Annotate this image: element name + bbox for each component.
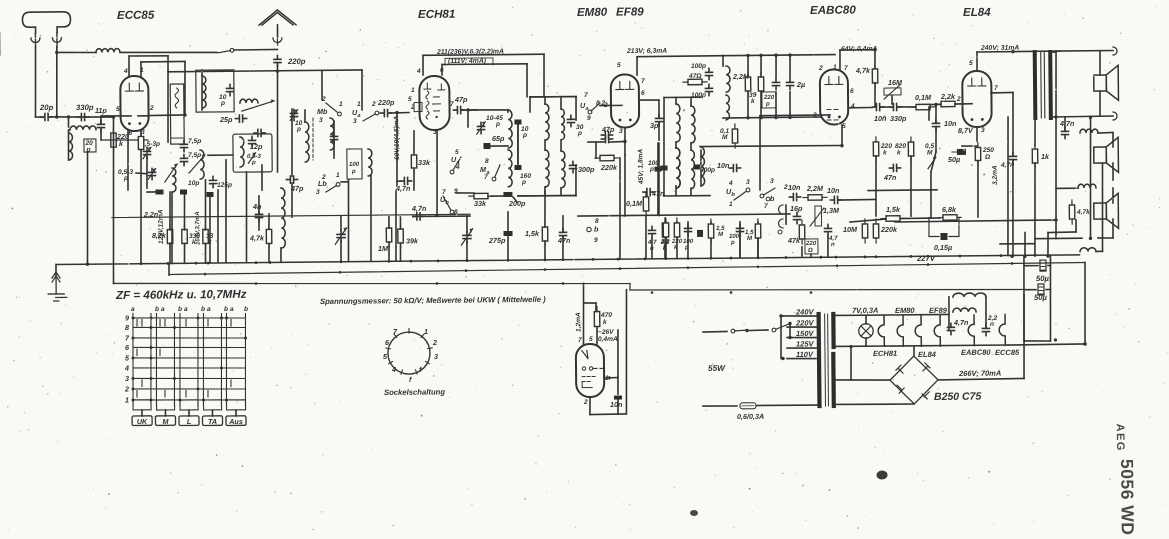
wire 11p down [100,129,102,140]
capacitor 220p FM coupling [274,55,281,66]
svg-text:Ω: Ω [807,247,813,254]
matrix junction [131,356,134,359]
wire Bplus col A [1023,256,1025,341]
contact tick [136,391,138,398]
switch Mb [326,103,341,116]
wire IFT2 sec bot [690,188,692,196]
wire af col 740 [739,236,741,256]
wire lamp up [865,316,867,324]
wire pin4 up [128,56,130,76]
wire button stub Aus [235,410,237,416]
wire cathode x128 down [127,131,128,190]
trimmer cap 10-45p [477,122,484,133]
resistor cathode 220k b [138,131,144,154]
wire gang3 down [466,242,468,261]
junction bus3 [730,291,733,294]
matrix junction [173,326,176,329]
wire 111V rail [442,63,527,66]
svg-text:220: 220 [805,240,817,247]
bus agc [169,262,1085,274]
capacitor 300p if2 [660,165,667,170]
wire ecap1 right [1048,265,1050,267]
wire choke net2 [985,297,987,327]
wire L9 up [304,110,306,122]
capacitor 100p r2 [705,84,712,95]
wire 0,5-3 leader [136,172,146,175]
svg-text:ECH81: ECH81 [418,8,455,21]
svg-text:240V: 240V [795,307,815,316]
svg-text:5: 5 [408,96,412,103]
svg-text:EF89: EF89 [616,5,644,18]
junction bus [195,262,198,265]
coil L11 osc coil top [508,110,512,148]
node spk return top [1089,116,1092,119]
wire 1k down [1034,163,1036,256]
terminal hook top [1113,47,1117,55]
node tap 110 [781,357,784,360]
fuse 0,6/0,3A [740,403,756,409]
svg-text:2µ: 2µ [796,80,805,89]
junction bus [757,256,760,259]
svg-text:p: p [351,168,356,175]
wire af out [839,198,875,201]
coil L2 input [70,126,96,130]
svg-text:4,7n: 4,7n [1059,119,1075,128]
svg-text:p: p [521,179,526,186]
wire FM lead lower [276,63,278,172]
matrix junction [149,326,152,329]
wire 220k agc left [595,142,597,158]
wire em bottom [590,413,626,416]
wire 39k col down [760,92,762,118]
svg-text:7: 7 [484,174,488,181]
AM dipole antenna [22,12,70,33]
wire gang2 up [340,217,342,231]
svg-text:10p: 10p [188,180,199,187]
svg-text:ECH81: ECH81 [873,349,897,358]
wire spk3 out [1112,219,1114,238]
jack circle [778,230,782,234]
wire xover right [1098,132,1113,135]
svg-text:b: b [244,306,248,313]
junction bus2 [339,271,342,274]
svg-text:7: 7 [844,65,848,72]
svg-text:10n: 10n [610,400,623,409]
junction bus3 [562,282,565,285]
svg-text:47n: 47n [883,173,897,182]
wire col x1008 [1007,117,1010,256]
resistor 0,1M vol [911,104,935,110]
node FM ant rail [276,69,279,72]
wire 4,7n det down [651,238,653,259]
wire choke to switch [120,52,217,54]
coil IFT2 sec lower [691,150,695,189]
node rail wire 39k col [759,54,762,57]
coil crossover 3b [1080,248,1096,252]
wire 8,2k up [169,192,172,230]
junction bus [730,257,733,260]
wire 22k right [955,103,972,105]
resistor 6,8k [939,215,961,221]
wire L10b drop [370,176,372,261]
ground arrow [52,276,60,282]
capacitor 300p ift [569,161,576,172]
wire matrix row 8 [133,326,246,328]
shielded coil box [170,84,184,144]
wire matrix row 5 [133,357,246,359]
wire det mid rail [723,117,820,118]
svg-text:10n: 10n [827,186,840,195]
svg-text:275p: 275p [488,236,506,245]
svg-text:4,7k: 4,7k [1076,209,1090,216]
junction bus [959,255,962,258]
svg-text:Mb: Mb [317,107,328,116]
pot 1,3M [810,206,824,226]
wire IFT1 coil tops [544,97,546,104]
capacitor 2u b [786,78,793,89]
capacitor 10n vol [872,103,883,110]
junction bus [340,260,343,263]
wire matrix column 8 [221,314,223,406]
node mid wire 2,2M col [746,116,749,119]
node pin5 rail [840,144,843,147]
button UK [132,416,152,426]
contact tick [230,380,232,387]
transformer T out secondary [1048,52,1053,118]
wire EF89 cath rail [624,155,625,216]
wire 20p to leg [50,116,57,118]
socket pin tick [389,361,393,363]
wire tap 150V [787,336,816,339]
wire matrix column 3 [156,314,158,406]
svg-text:50µ: 50µ [1036,274,1050,283]
speaker LS1 [1094,65,1119,100]
wire 100p det col [657,143,659,166]
variable cap tuning gang 2 [335,226,348,244]
svg-text:10M: 10M [843,225,858,234]
wire 0,1M det down [645,216,648,259]
svg-text:a: a [131,306,135,313]
capacitor 200p osc pad [503,192,512,197]
svg-text:EL84: EL84 [963,6,991,19]
svg-text:EABC80: EABC80 [810,4,856,17]
capacitor 0,15u [940,233,947,240]
svg-text:50µ: 50µ [948,155,960,164]
wire ECH81 pin3 down [436,131,438,215]
wire EM80 pin1 [604,377,618,379]
junction bus [140,262,143,265]
svg-text:220k: 220k [880,225,898,234]
wire v col 911 down [910,156,911,216]
matrix junction [197,317,200,320]
wire 22k left [930,103,941,105]
frame IFT1 left [529,97,531,112]
wire gnd corner [55,265,57,277]
svg-text:p: p [522,132,527,139]
capacitor 47p mixer [286,176,297,183]
wire button stub M [164,410,166,416]
svg-text:7: 7 [578,337,582,344]
wire 33k down [204,243,206,263]
capacitor 10n det [729,164,740,171]
svg-text:M: M [722,134,728,141]
wire det top rail [723,55,835,56]
junction bus3 [810,291,813,294]
resistor 39k [398,224,404,248]
matrix junction [225,398,228,401]
wire cath node down [624,141,626,155]
scan speck 2 [877,470,888,479]
wire 2u b col up [789,55,791,77]
wire EL84 k down [976,127,978,141]
wire prim top [1034,51,1036,53]
svg-text:5056 WD: 5056 WD [1117,459,1138,536]
capacitor 47n b [559,228,566,239]
box 220p det [762,92,776,108]
junction bus [927,255,930,258]
svg-text:3: 3 [316,189,320,196]
wire ecap2 right [1046,289,1050,291]
node j6 [466,108,469,111]
wire v col 876 down [875,156,876,216]
wire tap 110V [787,357,816,360]
wire speaker return [1089,117,1091,238]
contact tick [164,390,166,397]
coil L10b [368,149,372,176]
terminal hook bottom [1113,112,1117,120]
capacitor 4,7n fb [1009,152,1016,163]
wire x292 [291,109,292,176]
trimmer 10-45p [477,120,487,134]
svg-text:Ω: Ω [984,154,991,161]
contact tick [185,390,187,397]
wire matrix row 1 [133,399,246,401]
box 220ohm [805,239,818,254]
coil IFT1 prim upper [545,104,549,140]
coil det sec2 [726,95,729,120]
svg-text:k: k [883,149,887,156]
transformer mains sec HT [831,354,836,406]
resistor 22k [936,101,960,107]
jack arc 1 [778,205,783,214]
wire pin4 top [129,55,168,58]
speaker LS2 [1094,137,1119,172]
svg-text:k: k [603,319,607,326]
svg-text:11p: 11p [95,106,108,115]
wire x202 vert [201,70,204,110]
wire button stub TA [211,410,213,416]
svg-text:1: 1 [336,172,340,179]
junction bus [710,257,713,260]
ground main [48,272,67,301]
capacitor 4,7n a [400,177,411,184]
capacitor 330p vol [889,103,900,110]
capacitor 10n em [614,396,622,400]
svg-text:5: 5 [617,62,621,69]
wire 4,7n a link [397,180,401,182]
capacitor 12p [248,136,255,147]
wire fuse to trafo [757,404,818,407]
wire IFT2 prim mid [675,142,677,148]
wire pad leader [513,197,517,202]
jack contact 1 [766,197,770,201]
resistor 4,7k uhf [266,224,272,248]
svg-text:n: n [990,321,994,328]
svg-text:266V; 70mA: 266V; 70mA [958,369,1001,378]
junction bus [617,258,620,261]
wire osc grid down2 [396,160,399,186]
wire matrix row 3 [133,377,246,379]
wire 47n b up [562,216,564,232]
FM dipole antenna [259,10,296,25]
resistor 220k grid [111,128,117,152]
wire tap 220V [787,326,816,329]
matrix junction [131,316,134,319]
wire EF89 anode right [639,99,659,101]
wire cap10p col [517,125,520,164]
svg-text:45V; 1,8mA: 45V; 1,8mA [637,148,645,185]
wire EABC anode up [839,50,841,70]
wire 1,5k up [544,191,547,227]
wire matrix column 1 [132,313,134,405]
wire 4,7n a down [395,191,396,261]
svg-text:33k: 33k [418,158,431,167]
coil IFT3 prim [676,148,680,188]
wire spk1 bottom [1099,91,1101,116]
socket pin tick [421,334,424,337]
resistor 39k b [758,72,764,96]
capacitor 220p osc [380,109,391,116]
bus hv 227V [56,255,1079,265]
wire bus2 hook [168,265,170,276]
junction bus2 [465,269,468,272]
svg-text:330p: 330p [890,114,907,123]
coil L11b osc coil bottom [508,150,512,187]
junction bus [544,258,547,261]
capacitor 4,7n det [648,226,655,237]
wire 39k down [399,243,401,261]
junction bus [875,255,878,258]
svg-text:6: 6 [850,88,854,95]
capacitor 4,7n af [824,224,831,235]
wire mb col [321,70,323,100]
wire col 1,5M [710,222,713,258]
capacitor 11p [97,120,104,131]
wire 10n g link [931,152,936,172]
svg-text:4: 4 [391,365,396,374]
capacitor 330p [77,113,88,120]
coil IFT1 prim lower [545,150,549,187]
wire matrix column 4 [174,313,176,405]
svg-text:4,7n: 4,7n [395,184,411,193]
transformer mains primary [817,314,822,406]
socket pin tick [386,347,391,350]
coil gang A [172,168,176,192]
svg-text:2: 2 [321,96,326,103]
svg-text:9: 9 [594,237,598,244]
socket pin tick [401,370,403,374]
svg-text:7: 7 [641,78,645,85]
switch af2 [760,188,775,198]
wire EF89 anode up [636,57,638,75]
resistor 4,7k EABC [872,64,878,88]
wire IFT2 sec mid [690,143,692,150]
wire 39k col up [760,55,762,77]
wire EM80 branch [584,302,596,304]
capacitor 100p r1 [705,68,712,79]
wire matrix row 4 [133,367,246,369]
svg-text:3: 3 [434,352,438,361]
svg-text:7: 7 [450,101,454,108]
svg-text:a: a [357,113,360,119]
svg-text:b: b [178,306,182,313]
wire 33k right [488,195,508,197]
capacitor 2u a [772,78,779,89]
resistor 220k w [873,219,879,243]
coil IFT2 prim lower [676,148,680,188]
svg-text:Sockelschaltung: Sockelschaltung [384,387,445,397]
connector block UK [133,400,151,410]
wire vol rail2 [898,106,916,108]
wire 213V rail [637,55,723,58]
wire fb col2 [1012,161,1014,256]
wire el84 misc rail [895,220,1056,222]
svg-text:47p: 47p [454,95,468,104]
svg-text:39k: 39k [406,236,419,245]
svg-text:b: b [201,306,205,313]
wire HT to bridge [836,379,890,380]
wire 330k up [183,192,186,230]
capacitor 125p [209,176,216,187]
wire HT col [850,347,853,381]
wire x362 down [361,70,364,110]
capacitor 10p g [180,189,187,194]
svg-text:4,7n: 4,7n [1000,162,1014,169]
wire ecap2 left [1024,289,1036,291]
resistor 10M [862,219,868,243]
wire ecap1 left [1024,265,1038,267]
wire 10n g up [935,104,937,122]
svg-text:b: b [155,306,159,313]
resistor 2,2k c [663,218,669,242]
switch Ua2 [450,157,461,174]
svg-text:4,7k: 4,7k [249,233,265,242]
heater EF89 [915,316,921,347]
svg-text:220p: 220p [287,57,306,66]
svg-text:2: 2 [432,338,437,347]
node mains a [745,329,748,332]
svg-text:p: p [220,100,225,107]
svg-text:33k: 33k [474,199,487,208]
coil ratio det upper [701,147,705,186]
wire 33k grid up [413,131,416,153]
wire 4,7k EABC top [874,50,876,68]
svg-text:47Ω: 47Ω [688,73,702,80]
wire boxB left link [208,154,233,156]
frame IFT1 right b [575,165,578,196]
svg-text:7,5p: 7,5p [188,138,201,145]
wire 220k agc right [619,158,621,259]
socket pin tick [408,329,410,334]
capacitor 10n af [789,193,800,200]
svg-text:EM80: EM80 [895,306,916,315]
wire 33k up [204,180,207,230]
svg-text:5: 5 [589,336,593,343]
svg-text:2: 2 [124,385,129,394]
wire uhf col 262 [261,165,263,190]
coil det sec [726,66,730,92]
capacitor 30p ift [567,115,574,126]
